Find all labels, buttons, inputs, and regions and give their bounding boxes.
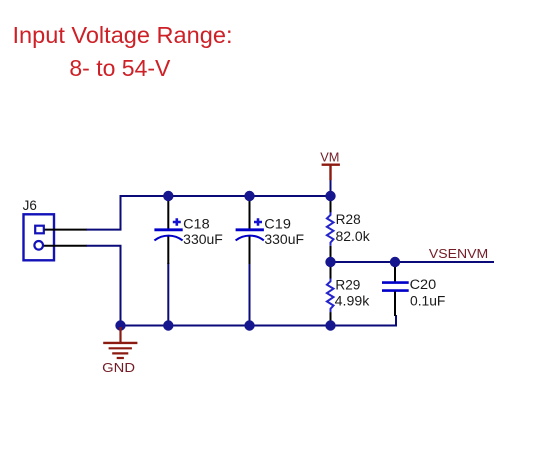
junction dot C19 bottom — [244, 320, 254, 330]
svg-text:VM: VM — [320, 149, 339, 164]
wire: VM stem navy — [330, 180, 332, 196]
connector J6 body — [24, 214, 55, 260]
junction dot C18 top — [163, 191, 173, 201]
wire: C18 lower navy segment — [167, 263, 169, 326]
J6 pin 1 lead — [45, 229, 87, 231]
resistor R29 zigzag — [327, 279, 334, 313]
ground bar 2 — [109, 347, 132, 349]
capacitor C20 bottom pin — [394, 292, 396, 317]
wire: top bus — [120, 195, 331, 197]
ground bar 3 — [112, 352, 128, 354]
wire: J6 pin1 to top bus corner — [86, 196, 121, 230]
wire: C19 lower navy segment — [249, 263, 251, 326]
svg-text:VSENVM: VSENVM — [429, 246, 488, 261]
capacitor C18 plus sign — [173, 218, 181, 226]
junction dot VSENVM node — [325, 257, 335, 267]
capacitor C20 bottom plate — [382, 289, 409, 292]
wire: J6 pin2 down left riser — [86, 246, 121, 326]
power symbol VM bar — [322, 165, 340, 181]
svg-text:330uF: 330uF — [264, 232, 304, 247]
svg-text:0.1uF: 0.1uF — [410, 294, 445, 309]
wire: bottom bus — [120, 325, 396, 327]
J6 pin 1 square — [35, 226, 44, 234]
capacitor C19 bottom arc plate — [236, 236, 264, 241]
ground bar 4 — [117, 357, 124, 359]
junction dot VM node — [325, 191, 335, 201]
ground symbol stem — [119, 327, 121, 343]
capacitor C20 top plate — [382, 281, 409, 284]
svg-text:330uF: 330uF — [183, 232, 223, 247]
capacitor C18 bottom pin — [167, 237, 169, 265]
wire: VSENVM net — [331, 261, 495, 263]
svg-text:GND: GND — [102, 360, 135, 375]
resistor R28 top pin — [330, 196, 332, 213]
svg-text:C18: C18 — [183, 216, 210, 231]
capacitor C19 top pin — [249, 196, 251, 229]
junction dot C20 top node — [390, 257, 400, 267]
svg-text:J6: J6 — [23, 198, 37, 213]
capacitor C20 top pin — [394, 262, 396, 282]
svg-text:R29: R29 — [335, 278, 360, 293]
junction dot GND node — [115, 320, 125, 330]
J6 pin 2 circle — [34, 241, 43, 250]
J6 pin 2 lead — [44, 245, 87, 247]
svg-text:C20: C20 — [410, 277, 437, 292]
capacitor C18 top pin — [167, 196, 169, 229]
svg-text:82.0k: 82.0k — [336, 229, 371, 244]
capacitor C18 top plate — [154, 228, 182, 231]
resistor R28 zigzag — [327, 212, 334, 246]
wire: C20 bottom riser — [395, 315, 397, 327]
svg-text:R28: R28 — [336, 212, 361, 227]
capacitor C19 plus sign — [254, 218, 262, 226]
svg-text:4.99k: 4.99k — [335, 294, 370, 309]
resistor R28 bottom pin — [330, 246, 332, 262]
ground bar 1 — [103, 342, 137, 344]
capacitor C19 top plate — [236, 228, 264, 231]
junction dot R29 bottom — [325, 320, 335, 330]
svg-text:Input Voltage Range:: Input Voltage Range: — [13, 22, 233, 48]
resistor R29 bottom pin — [330, 312, 332, 325]
resistor R29 top pin — [330, 262, 332, 279]
junction dot C18 bottom — [163, 320, 173, 330]
svg-text:C19: C19 — [264, 216, 291, 231]
capacitor C19 bottom pin — [249, 237, 251, 265]
svg-text:8- to 54-V: 8- to 54-V — [69, 55, 171, 81]
junction dot C19 top — [244, 191, 254, 201]
capacitor C18 bottom arc plate — [154, 236, 182, 241]
